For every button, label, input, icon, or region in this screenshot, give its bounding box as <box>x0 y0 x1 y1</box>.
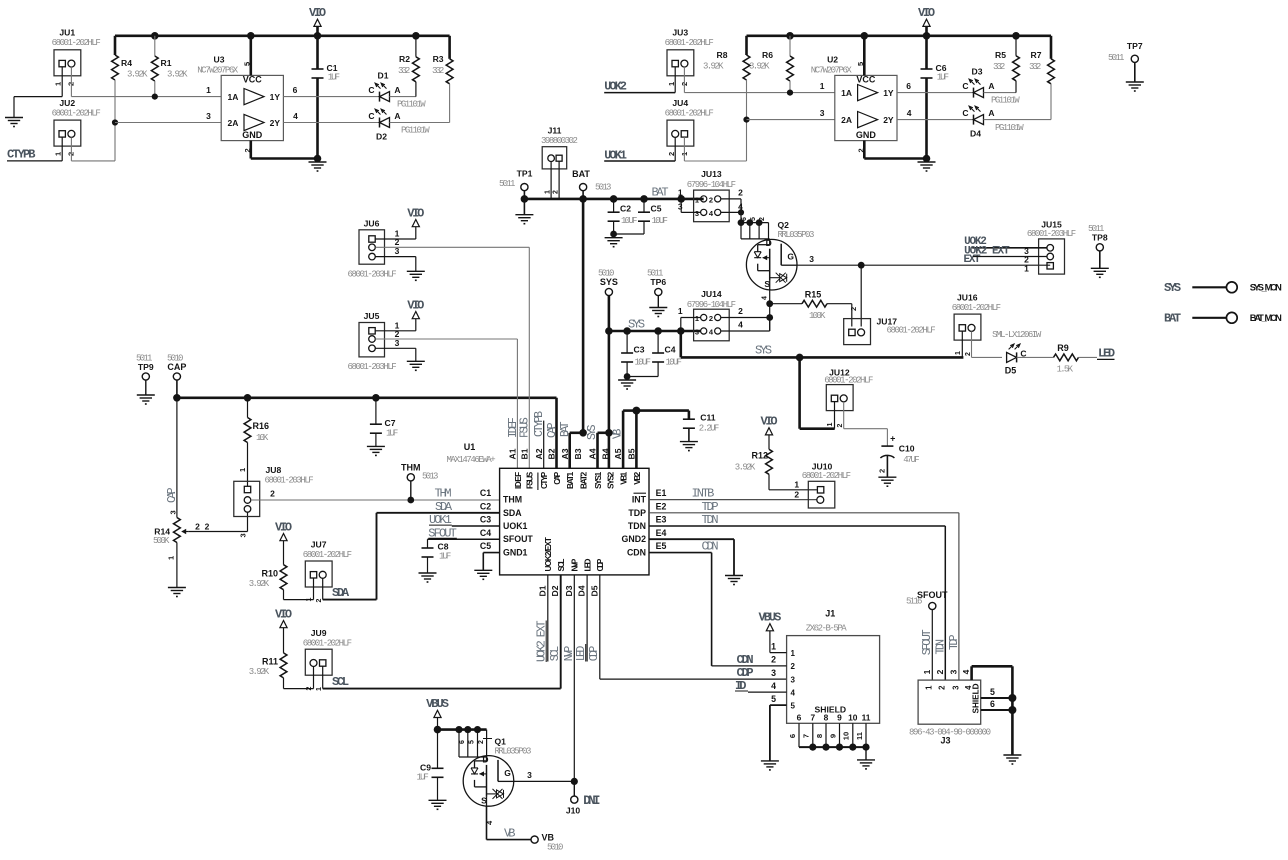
wire U3 VCC pin5 to rail <box>250 36 253 76</box>
testpoint CAP <box>167 354 186 398</box>
label SHIELD (J3, rotated) <box>972 683 981 713</box>
svg-text:1UF: 1UF <box>439 552 451 562</box>
svg-text:5: 5 <box>791 701 796 710</box>
wire U1 LED stub (D4) <box>586 575 588 662</box>
svg-text:100K: 100K <box>809 311 826 321</box>
svg-text:GND: GND <box>242 130 263 140</box>
svg-text:3: 3 <box>168 510 177 514</box>
svg-text:1: 1 <box>771 641 776 651</box>
legend SYS to SYS_MON <box>1164 281 1282 295</box>
wire JU7 pin2 to SDA <box>323 578 377 599</box>
pin number labels U2 <box>820 62 912 153</box>
wire J3 pin6 to shield node <box>981 699 1017 714</box>
svg-text:C3: C3 <box>634 345 645 355</box>
wire JU6 pin3 to ground <box>375 257 415 272</box>
wire D2 anode to R3 <box>390 122 450 124</box>
testpoint TP6 <box>647 269 666 308</box>
svg-text:2: 2 <box>738 187 743 197</box>
svg-text:SYS: SYS <box>1164 281 1181 295</box>
wire JU6 pin2 to U1 FSUS (gray) <box>375 247 529 468</box>
svg-text:332: 332 <box>398 66 410 76</box>
svg-text:R12: R12 <box>752 451 769 461</box>
U1 right inside pin names <box>622 493 647 557</box>
svg-text:C4: C4 <box>480 528 491 538</box>
svg-text:1: 1 <box>695 314 699 323</box>
capacitor C3 <box>621 331 651 377</box>
net label UOK1 (to U2) <box>604 148 627 162</box>
wire U1 SCL (D2) down <box>560 575 562 689</box>
jumper JU16 <box>952 293 1001 357</box>
svg-text:6: 6 <box>741 217 748 221</box>
wire U3 1Y to D1 (gray) <box>283 96 379 98</box>
power flag VIO (R12) <box>760 415 777 450</box>
wire CAP column to R14 <box>166 398 179 518</box>
svg-text:SDA: SDA <box>332 586 350 600</box>
wire J11 pins to BAT rail <box>551 161 559 199</box>
svg-text:2: 2 <box>667 152 676 156</box>
net label SFOUT (C4) <box>428 526 457 540</box>
jumper JU17 <box>844 317 936 345</box>
svg-text:JU4: JU4 <box>672 98 688 108</box>
connector J3 body <box>909 680 991 745</box>
jumper JU3 <box>665 28 714 87</box>
jumper JU1 <box>52 28 101 87</box>
svg-text:6: 6 <box>990 699 995 709</box>
svg-text:BAT: BAT <box>651 186 668 200</box>
resistor R10 3.92K <box>249 565 287 600</box>
svg-text:1: 1 <box>667 82 676 86</box>
svg-text:SYS: SYS <box>600 277 618 287</box>
wire JU9 pin1 to SCL bus <box>323 666 561 688</box>
svg-text:CDN: CDN <box>627 548 646 558</box>
connector J11 398800302 <box>541 125 578 194</box>
wire SDA from U1 C2 <box>377 513 500 600</box>
wire U1 TDP to J3 <box>649 513 959 680</box>
pin numbers JU15 <box>1024 255 1029 274</box>
svg-text:3: 3 <box>527 770 532 780</box>
net label CDN (E5) <box>702 540 719 554</box>
wire SYS thick bus to JU16 <box>681 331 964 361</box>
IC U1 MAX14746EWA+ body <box>447 442 650 575</box>
LED D4 PG1101W <box>962 106 1024 138</box>
wire U2 GND pin2 to ground <box>864 141 930 163</box>
capacitor C10 47UF polarized <box>878 434 920 478</box>
svg-text:68001-203HLF: 68001-203HLF <box>265 476 314 486</box>
power flag VIO (JU5) <box>407 298 424 331</box>
svg-text:7: 7 <box>810 712 815 722</box>
ground (J1 shield) <box>857 760 875 769</box>
resistor R3 <box>432 36 453 123</box>
svg-text:D: D <box>766 238 772 248</box>
svg-text:9: 9 <box>837 712 842 722</box>
svg-text:3.92K: 3.92K <box>249 579 270 589</box>
LED D2 PG1101W <box>368 109 430 141</box>
ground (C11) <box>680 442 698 451</box>
svg-text:3: 3 <box>695 328 699 337</box>
ground (JU1) <box>5 118 23 127</box>
svg-text:INTB: INTB <box>692 487 715 501</box>
wire U1 CDP (D5) to J1 pin3 <box>600 575 787 679</box>
net label LED (rotated) <box>575 644 588 662</box>
svg-text:SML-LX1206IW: SML-LX1206IW <box>992 330 1042 340</box>
svg-text:1Y: 1Y <box>270 92 281 102</box>
net label UOK2 (JU15) <box>964 236 987 248</box>
svg-text:2: 2 <box>791 662 796 671</box>
svg-text:1: 1 <box>955 351 962 355</box>
wire U3 GND pin2 to ground <box>251 141 322 163</box>
testpoint SYS <box>598 269 618 332</box>
svg-text:2: 2 <box>759 217 766 221</box>
net label THM <box>435 487 452 501</box>
svg-text:1: 1 <box>54 82 63 86</box>
svg-text:NVP: NVP <box>563 646 576 662</box>
svg-text:3: 3 <box>771 668 776 678</box>
wire BAT vertical to U1 BAT pins <box>582 199 585 433</box>
svg-text:CDP: CDP <box>737 666 754 680</box>
svg-text:2: 2 <box>771 655 776 665</box>
svg-text:R16: R16 <box>253 421 270 431</box>
svg-text:2: 2 <box>709 314 713 323</box>
U1 left inside pin names <box>503 495 533 558</box>
svg-text:JU3: JU3 <box>672 28 688 38</box>
svg-text:R3: R3 <box>433 54 444 64</box>
svg-text:3: 3 <box>820 108 825 118</box>
ground (JU6) <box>407 271 425 280</box>
wire SYS row <box>605 317 700 334</box>
jumper JU6 68001-203HLF <box>348 219 400 280</box>
svg-text:CTYPB: CTYPB <box>7 148 36 162</box>
jumper JU10 <box>794 462 851 509</box>
svg-text:A: A <box>988 108 994 118</box>
ground (C3/C4) <box>618 380 636 389</box>
net label IDEF (rotated) <box>507 417 520 438</box>
svg-text:2: 2 <box>935 669 945 674</box>
svg-text:VB: VB <box>542 832 555 842</box>
wire BAT rail <box>521 186 704 203</box>
svg-text:2.2UF: 2.2UF <box>699 424 720 434</box>
wire gate junction down to JU17 <box>860 265 862 326</box>
svg-text:VB: VB <box>504 827 515 841</box>
svg-text:D4: D4 <box>577 585 587 596</box>
svg-text:7: 7 <box>802 734 811 738</box>
wire D3 anode to R5 <box>984 92 1017 94</box>
capacitor C6 <box>921 36 950 159</box>
svg-text:3.92K: 3.92K <box>127 70 148 80</box>
svg-text:U1: U1 <box>464 442 476 452</box>
svg-text:4: 4 <box>771 681 776 691</box>
jumper JU15 68001-203HLF <box>1027 220 1076 275</box>
svg-text:2: 2 <box>837 424 844 428</box>
power flag VIO (top-left rail) <box>309 6 326 36</box>
jumper JU5 68001-203HLF <box>348 311 400 372</box>
svg-text:2A: 2A <box>228 118 239 128</box>
svg-text:TDP: TDP <box>702 500 719 514</box>
ground (U2/C6) <box>918 162 936 171</box>
net label SFOUT (rotated, J3) <box>921 629 934 655</box>
svg-text:6: 6 <box>293 85 298 95</box>
power flag VIO (top-right rail) <box>918 6 935 36</box>
capacitor C9 1UF <box>417 730 444 801</box>
wire UOK1 to JU4 pin1 <box>604 137 675 161</box>
net label TDN (E3) <box>702 513 719 527</box>
wire SYS bus to JU12 pin1 <box>800 357 835 428</box>
svg-text:SFOUT: SFOUT <box>503 534 533 544</box>
wire CDN to J1 pin2 <box>712 665 787 667</box>
svg-text:2: 2 <box>849 307 858 311</box>
U1 bottom pin designators D1-D5 <box>537 585 599 596</box>
svg-text:5: 5 <box>469 740 476 744</box>
wire U1 INT to INTB / JU10 <box>649 499 817 501</box>
U1 top inside pin names <box>514 471 642 490</box>
svg-text:R11: R11 <box>262 657 278 667</box>
svg-text:TP1: TP1 <box>517 169 533 179</box>
svg-text:2Y: 2Y <box>270 118 281 128</box>
wire JU13 pin2/pin4 to Q2 drain <box>721 199 744 223</box>
wire D4 anode to R7 <box>984 119 1052 121</box>
svg-text:D2: D2 <box>550 585 560 596</box>
svg-text:2: 2 <box>794 489 799 499</box>
svg-text:1: 1 <box>678 187 683 197</box>
net label BAT (rotated) <box>559 421 572 437</box>
svg-text:1: 1 <box>167 556 176 560</box>
power flag VBUS (Q1) <box>426 697 449 730</box>
svg-text:FSUS: FSUS <box>519 417 532 438</box>
svg-text:LED: LED <box>575 646 588 662</box>
svg-text:INT: INT <box>632 495 647 505</box>
svg-text:ZX62-B-5PA: ZX62-B-5PA <box>806 624 848 634</box>
svg-text:5013: 5013 <box>595 183 611 193</box>
power flag VIO (R11) <box>275 607 292 653</box>
svg-text:C11: C11 <box>700 413 716 423</box>
svg-text:68001-203HLF: 68001-203HLF <box>348 270 397 280</box>
svg-text:C4: C4 <box>665 345 676 355</box>
svg-text:68001-202HLF: 68001-202HLF <box>303 639 352 649</box>
wire JU5 pin1 to VIO <box>375 330 416 332</box>
svg-text:A2: A2 <box>534 448 544 459</box>
wire JU5 pin3 to ground <box>375 348 415 361</box>
wire J3 pin4 to shield node <box>972 666 1013 698</box>
net label CDP (rotated) <box>588 646 601 662</box>
power flag VBUS (J1) <box>759 610 782 652</box>
svg-text:D2: D2 <box>376 132 387 142</box>
resistor R7 <box>1029 36 1054 120</box>
svg-text:C1: C1 <box>327 63 338 73</box>
junction dots Q2 drain row <box>738 217 769 226</box>
svg-text:SDA: SDA <box>435 500 453 514</box>
svg-text:D: D <box>482 754 488 764</box>
net label SCL (rotated) <box>549 646 562 662</box>
svg-text:JU6: JU6 <box>364 219 380 229</box>
svg-text:68001-203HLF: 68001-203HLF <box>1027 229 1076 239</box>
LED D1 PG1101W <box>368 71 426 110</box>
wire UOK1 stub to U1 C3 <box>452 525 500 527</box>
svg-text:3.92K: 3.92K <box>249 667 270 677</box>
svg-text:DNI: DNI <box>583 794 600 808</box>
svg-text:68001-202HLF: 68001-202HLF <box>52 38 101 48</box>
svg-text:UOK2: UOK2 <box>604 80 627 94</box>
svg-text:2: 2 <box>709 195 713 204</box>
svg-text:2A: 2A <box>841 115 852 125</box>
ground (GND1) <box>474 570 492 579</box>
svg-text:VB1: VB1 <box>620 471 629 484</box>
wire ID to J1 pin4 <box>748 691 787 693</box>
svg-text:J1: J1 <box>825 609 835 619</box>
ground (TP9) <box>137 395 155 404</box>
svg-text:UOK2 EXT: UOK2 EXT <box>964 245 1010 257</box>
svg-text:A: A <box>394 85 400 95</box>
jumper JU4 <box>665 98 714 156</box>
svg-text:68001-202HLF: 68001-202HLF <box>665 109 714 119</box>
svg-text:68001-203HLF: 68001-203HLF <box>348 362 397 372</box>
wire UOK2 EXT stub to JU15 pin3 <box>973 246 1047 257</box>
U1 left pin numbers C1-C5 <box>480 488 491 551</box>
svg-text:R9: R9 <box>1057 343 1069 353</box>
svg-text:3: 3 <box>951 685 960 690</box>
svg-text:4: 4 <box>738 320 743 330</box>
svg-text:C8: C8 <box>438 542 449 552</box>
svg-text:UOK1: UOK1 <box>503 521 528 531</box>
net label UOK2 EXT <box>964 245 1010 257</box>
svg-text:JU13: JU13 <box>701 169 722 179</box>
ground (R14) <box>168 588 186 597</box>
svg-text:2: 2 <box>205 522 210 532</box>
net label SYS (rotated) <box>586 424 599 440</box>
ground (C2/C5) <box>605 238 623 247</box>
wire J1 shield pins to ground bus <box>799 723 870 760</box>
svg-text:BAT: BAT <box>559 421 572 437</box>
svg-text:A: A <box>394 111 400 121</box>
U1 top pin designators A1-B5 <box>508 448 637 459</box>
svg-text:500K: 500K <box>153 536 170 546</box>
svg-text:4: 4 <box>961 669 971 674</box>
svg-text:3: 3 <box>791 675 796 684</box>
wire VB pins A5/B5 to C11 <box>623 407 689 469</box>
net label INTB <box>692 487 715 501</box>
svg-text:C10: C10 <box>899 444 915 454</box>
wire CAP rail <box>173 394 556 402</box>
svg-text:332: 332 <box>993 62 1005 72</box>
svg-text:TP9: TP9 <box>138 362 154 372</box>
svg-text:SFOUT: SFOUT <box>921 629 934 655</box>
svg-text:R10: R10 <box>261 569 278 579</box>
svg-text:JU2: JU2 <box>59 98 75 108</box>
svg-text:1UF: 1UF <box>417 773 429 783</box>
svg-text:C1: C1 <box>480 488 491 498</box>
net label CTYPB (rotated) <box>533 411 546 437</box>
svg-text:2: 2 <box>552 190 559 194</box>
svg-text:10UF: 10UF <box>635 358 651 368</box>
testpoint VB <box>531 832 563 852</box>
svg-text:C: C <box>368 111 374 121</box>
svg-text:3.92K: 3.92K <box>735 463 756 473</box>
svg-text:R15: R15 <box>805 290 822 300</box>
wire CTYPB to JU2 pin1 <box>7 137 62 161</box>
svg-text:CAP: CAP <box>553 471 562 484</box>
svg-text:4: 4 <box>791 688 796 697</box>
wire U1 CDN to J1 <box>649 553 712 666</box>
svg-text:332: 332 <box>1029 62 1041 72</box>
svg-text:PG1101W: PG1101W <box>995 123 1024 133</box>
svg-text:R14: R14 <box>154 527 170 537</box>
svg-text:A4: A4 <box>588 448 598 459</box>
ground (U3/C1) <box>309 162 327 171</box>
svg-text:NC7W207P6X: NC7W207P6X <box>811 65 853 75</box>
svg-text:3: 3 <box>695 209 699 218</box>
legend BAT to BAT_MON <box>1164 312 1282 326</box>
svg-text:1UF: 1UF <box>328 73 340 83</box>
resistor R9 1.5K <box>1054 343 1098 375</box>
net label LED <box>1097 346 1115 360</box>
svg-text:BAT_MON: BAT_MON <box>1250 313 1282 323</box>
wire JU5 pin2 to U1 IDEF (gray) <box>375 339 517 468</box>
svg-text:3: 3 <box>239 533 248 537</box>
svg-text:SDA: SDA <box>503 508 522 518</box>
svg-text:JU10: JU10 <box>812 462 833 472</box>
net label SCL <box>332 675 349 689</box>
svg-text:E1: E1 <box>656 488 667 498</box>
svg-text:CDP: CDP <box>588 646 601 662</box>
svg-text:1UF: 1UF <box>937 73 949 83</box>
svg-text:1: 1 <box>1024 263 1029 273</box>
wire J3 pin5 to shield node <box>981 687 1017 702</box>
buffer U3 NC7W207P6X <box>197 54 283 140</box>
svg-text:NVP: NVP <box>571 558 580 571</box>
svg-text:SYS: SYS <box>628 317 645 331</box>
svg-text:S: S <box>481 795 487 805</box>
resistor R15 100K <box>770 290 858 327</box>
wire JU6 pin1 to VIO <box>375 238 416 240</box>
svg-text:SYS2: SYS2 <box>607 471 616 489</box>
testpoint THM <box>401 463 438 501</box>
svg-text:A5: A5 <box>613 448 623 459</box>
svg-text:1Y: 1Y <box>883 88 894 98</box>
wire U1 GND2 to ground <box>649 539 734 575</box>
svg-text:C2: C2 <box>480 501 491 511</box>
U1 right pin numbers E1-E5 <box>656 488 667 551</box>
svg-text:11: 11 <box>862 712 871 722</box>
svg-text:8: 8 <box>815 734 824 738</box>
junction dots on VIO rail <box>151 32 420 40</box>
testpoint BAT <box>572 169 611 199</box>
svg-text:TDN: TDN <box>702 513 719 527</box>
capacitor C1 <box>312 36 341 159</box>
svg-text:4: 4 <box>293 111 298 121</box>
svg-text:5: 5 <box>750 217 757 221</box>
svg-text:1: 1 <box>695 195 699 204</box>
svg-text:JU5: JU5 <box>364 311 380 321</box>
LED D5 SML-LX1206IW <box>992 330 1042 376</box>
svg-text:10UF: 10UF <box>666 358 682 368</box>
svg-text:1: 1 <box>678 306 683 316</box>
svg-text:PG1101W: PG1101W <box>991 96 1020 106</box>
J1 left pin numbers <box>771 641 795 710</box>
ground (JU5) <box>407 361 425 370</box>
jumper JU13 67996-104HLF <box>678 169 743 222</box>
resistor R12 3.92K <box>735 449 817 490</box>
wire JU16 pin2 to D5 (gray) <box>972 356 1003 358</box>
wire Q1 gate to NVP / J10 <box>514 770 578 785</box>
testpoint TP1 <box>499 169 533 215</box>
svg-text:2: 2 <box>938 685 947 690</box>
svg-text:A1: A1 <box>508 448 518 459</box>
svg-text:2: 2 <box>195 522 200 532</box>
pin number labels U3 <box>206 62 298 153</box>
wire Q2 source column <box>762 290 774 331</box>
ground (C10) <box>878 477 896 486</box>
svg-text:332: 332 <box>432 66 444 76</box>
svg-text:R8: R8 <box>717 50 728 60</box>
svg-text:5011: 5011 <box>499 179 515 189</box>
